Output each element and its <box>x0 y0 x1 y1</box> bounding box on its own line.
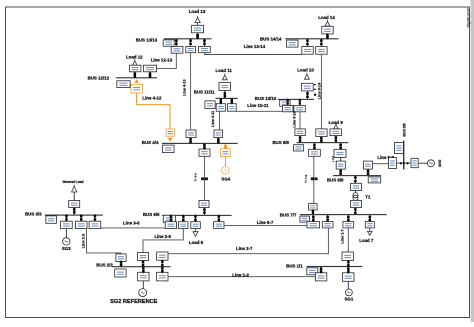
label Line 6-7 <box>257 220 274 225</box>
svg-text:Load 7: Load 7 <box>359 238 374 243</box>
wire Line 2-7 <box>168 228 328 254</box>
cubicle Line 2-6 at BUS 2/2 <box>138 253 149 261</box>
load Load 14 symbol <box>325 20 330 26</box>
bus BUS 5/5 (vertical) <box>403 141 404 170</box>
junction Load 14 / BUS 14/14 <box>326 33 329 39</box>
label BUS 6/6 <box>143 212 160 217</box>
label BUS 10/10 <box>255 96 277 101</box>
wire Load 10 to BUS 10/10 <box>307 91 309 99</box>
junction BUS 13/13 / Line 13-14 <box>203 38 206 46</box>
result box BUS 10/10 <box>280 100 290 106</box>
cubicle Line 13-14 at BUS 14/14 <box>302 47 313 55</box>
svg-text:DIgSILENT: DIgSILENT <box>467 7 471 27</box>
load Load 6 label <box>189 240 204 245</box>
label SG5 (rotated) <box>438 160 442 167</box>
cubicle Line 5-8 at BUS 5/5 <box>389 158 397 169</box>
wire General Load to BUS 3/3 <box>73 192 75 214</box>
svg-text:BUS 1/1: BUS 1/1 <box>286 263 303 268</box>
junction BUS 7/7 / Line 2-7 <box>326 215 329 222</box>
junction BUS 4/4 / Line 4-13 <box>189 137 192 144</box>
load Load 14 result box <box>322 26 333 34</box>
label BUS 5/5 (rotated) <box>402 123 406 136</box>
svg-text:Line 2-6: Line 2-6 <box>154 234 171 239</box>
svg-text:BUS 8/8: BUS 8/8 <box>327 177 344 182</box>
cubicle Line 2-3 at BUS 2/2 <box>116 254 126 262</box>
junction BUS 9/9 / Line 8-9 <box>339 143 342 150</box>
cubicle Line 1-2 at BUS 2/2 <box>157 272 168 281</box>
result box BUS 7/7 <box>300 216 310 222</box>
junction BUS 7/7 / Line 6-7 <box>312 215 315 222</box>
junction Line 5-8 / BUS 5/5 <box>400 162 409 164</box>
cubicle branch 4-6 at BUS 4/4 <box>199 149 210 156</box>
junction T1 / BUS 7/7 <box>354 207 357 215</box>
cubicle Line 1-7 at BUS 7/7 <box>343 222 354 228</box>
cubicle Line 10-11 at BUS 11/11 <box>228 104 237 112</box>
wire SG2 <box>142 281 144 289</box>
bus BUS 12/12 <box>116 77 157 78</box>
cubicle Line 1-7 at BUS 1/1 <box>342 252 353 261</box>
svg-text:Line 6-7: Line 6-7 <box>257 220 274 225</box>
result box BUS 2/2 <box>115 269 126 277</box>
wire branch 4-6 <box>204 156 206 200</box>
label Line 2-6 <box>154 234 171 239</box>
svg-text:T1: T1 <box>365 194 371 199</box>
cubicle SG3 at BUS 3/3 <box>61 221 73 228</box>
junction BUS 7/7 / Load 7 <box>369 215 372 222</box>
load Load 6 symbol <box>193 229 198 237</box>
junction BUS 2/2 / Line 1-2 <box>161 266 164 273</box>
label Line 4-13 (rotated) <box>182 79 186 95</box>
svg-text:Load 11: Load 11 <box>216 68 233 73</box>
junction BUS 8/8 / T1 <box>354 175 357 183</box>
cubicle Line 13-14 at BUS 13/13 <box>199 46 211 52</box>
switch arrow Line 4-12 at BUS 12/12 (orange) <box>134 79 138 82</box>
svg-text:L 8-9: L 8-9 <box>331 155 335 162</box>
junction BUS 6/6 / Line 3-6 <box>170 214 173 222</box>
junction BUS 11/11 / Line 4-11 <box>220 98 222 105</box>
cubicle SG5 at BUS 5/5 <box>411 158 418 167</box>
label Line 8-9 (rotated) <box>331 155 335 162</box>
wire Line 12-13 <box>157 53 177 68</box>
load General Load label <box>62 180 83 184</box>
result box BUS 11/11 <box>205 101 215 109</box>
load Load 11 symbol <box>222 74 227 80</box>
label Line 1-7 (rotated) <box>341 229 345 243</box>
label Line 5-8 <box>377 155 394 160</box>
bus BUS 1/1 <box>307 266 363 267</box>
junction branch 4-6 / BUS 6/6 <box>203 207 206 215</box>
load Load 11 label <box>216 68 233 73</box>
wire SG5 <box>418 162 427 164</box>
cubicle Line 2-3 at BUS 3/3 <box>75 221 87 228</box>
load Load 12 label <box>126 55 143 60</box>
result box BUS 14/14 <box>287 40 298 47</box>
junction Line 2-3 / BUS 2/2 <box>120 260 123 267</box>
load Load 12 result box <box>130 65 141 72</box>
junction BUS 7/7 / Line 1-7 <box>347 215 350 222</box>
svg-text:Tr 4-6: Tr 4-6 <box>193 173 197 182</box>
cubicle Line 9-14 at BUS 9/9 <box>316 129 327 137</box>
generator SG1 <box>346 289 353 296</box>
cubicle branch 7-9 at BUS 7/7 <box>309 204 318 210</box>
junction BUS 1/1 / Line 1-2 <box>320 267 323 274</box>
cubicle Line 4-11 at BUS 4/4 <box>214 130 223 138</box>
label SG1 <box>345 296 354 301</box>
bus BUS 14/14 <box>285 38 338 39</box>
svg-text:BUS 7/7: BUS 7/7 <box>280 212 297 217</box>
cubicle Line 2-6 at BUS 6/6 <box>179 222 189 229</box>
svg-text:General Load: General Load <box>62 180 83 184</box>
wire Line 10-11 <box>236 110 282 112</box>
label BUS 9/9 <box>272 140 289 145</box>
wire SG3 <box>65 229 67 238</box>
DIgSILENT logo text <box>467 7 471 27</box>
load General Load symbol <box>72 185 77 192</box>
load Load 13 result box <box>192 25 204 33</box>
label SG3 <box>62 246 71 251</box>
transformer T1 <box>353 190 358 200</box>
cubicle Line 2-7 at BUS 7/7 <box>322 222 333 228</box>
wire Load 9 to BUS 9/9 <box>335 136 337 143</box>
label branch 4-6 (rotated) <box>193 173 197 182</box>
label BUS 7/7 <box>280 212 297 217</box>
cubicle Line 1-2 at BUS 1/1 <box>315 273 326 281</box>
switch arrow SG4 at BUS 4/4 (orange) <box>224 145 228 150</box>
result box BUS 1/1 <box>307 268 318 275</box>
label Line 4-11 (rotated) <box>211 111 215 127</box>
cubicle Line 4-12 at BUS 12/12 (orange) <box>131 84 143 93</box>
wire Line 4-11 <box>219 111 221 130</box>
label BUS 13/13 <box>136 37 158 42</box>
load Load 10 result box <box>302 83 314 91</box>
junction BUS 3/3 / Line 2-3 <box>80 214 83 222</box>
bus BUS 2/2 <box>112 266 170 267</box>
cubicle Line 8-9 at BUS 9/9 <box>334 149 346 157</box>
wire Load 14 to BUS 14/14 <box>327 34 329 38</box>
junction BUS 13/13 / Line 12-13 <box>175 38 178 46</box>
label Line 1-2 <box>232 272 249 277</box>
label Line 2-3 (rotated) <box>81 234 85 248</box>
svg-text:Line 1-2: Line 1-2 <box>232 272 249 277</box>
cubicle Line 12-13 at BUS 13/13 <box>171 46 183 53</box>
cubicle Load 6 at BUS 6/6 <box>191 222 201 229</box>
junction Load 11 / BUS 11/11 <box>224 91 227 98</box>
result box BUS 5/5 <box>395 143 404 154</box>
cubicle Line 9-10 at BUS 9/9 <box>295 129 305 136</box>
wire Line 3-6 <box>101 227 166 229</box>
label SG2 REFERENCE <box>110 299 158 305</box>
load Load 9 label <box>329 120 344 125</box>
svg-text:BUS 3/3: BUS 3/3 <box>25 211 42 216</box>
wire Line 5-8 <box>373 163 389 165</box>
junction BUS 14/14 / Line 9-14 <box>320 38 323 46</box>
label Line 12-13 <box>151 58 173 63</box>
cubicle SG1 at BUS 1/1 <box>343 273 355 282</box>
svg-text:Load 10: Load 10 <box>297 68 314 73</box>
wire Line 9-14 stub to BUS 9/9 <box>320 137 322 143</box>
wire Line 8-9 <box>340 157 342 161</box>
wire Line 4-13 <box>190 53 192 130</box>
label Line 10-11 <box>247 103 269 108</box>
junction BUS 6/6 / Load 6 <box>194 214 197 222</box>
label Line 3-6 <box>123 220 140 225</box>
wire Line 9-10 <box>299 112 301 129</box>
cubicle Line 5-8 at BUS 8/8 <box>363 161 372 169</box>
load Load 10 box side marks <box>314 84 316 96</box>
junction BUS 9/9 / Line 9-10 <box>299 135 302 142</box>
junction BUS 6/6 / Line 2-6 <box>182 214 185 222</box>
cubicle Line 3-6 at BUS 6/6 <box>165 222 176 229</box>
svg-text:Line 10-11: Line 10-11 <box>247 103 269 108</box>
wire Load 12 to BUS 12/12 <box>134 72 136 78</box>
svg-text:BUS 10/10: BUS 10/10 <box>255 96 277 101</box>
junction BUS 9/9 / Line 9-14 <box>320 136 323 143</box>
svg-text:Line 4-11: Line 4-11 <box>211 111 215 127</box>
load Load 14 label <box>318 15 335 20</box>
load Load 13 symbol <box>195 16 200 23</box>
svg-text:Tr 7-9: Tr 7-9 <box>304 174 308 183</box>
junction BUS 10/10 / Line 9-10 <box>299 98 301 105</box>
label Line 4-12 <box>142 96 162 101</box>
junction General Load / BUS 3/3 <box>73 207 76 214</box>
junction Load 9 / BUS 9/9 <box>335 135 338 142</box>
branch 4-6 mid symbol <box>201 177 208 180</box>
junction BUS 6/6 / Line 6-7 <box>218 214 221 222</box>
junction BUS 1/1 / SG1 <box>347 267 350 274</box>
cubicle Line 4-13 at BUS 4/4 <box>186 130 196 138</box>
svg-text:BUS 11/11: BUS 11/11 <box>194 90 216 95</box>
load Load 9 result box <box>330 129 341 136</box>
bus BUS 11/11 <box>216 98 238 99</box>
bus BUS 8/8 <box>333 175 381 176</box>
wire SG1 <box>347 281 349 289</box>
junction BUS 3/3 / SG3 <box>65 214 68 222</box>
cubicle T1 at BUS 8/8 <box>351 183 362 190</box>
bus BUS 9/9 <box>297 142 349 143</box>
wire Line 5-8 to bus <box>396 162 411 164</box>
wire Line 1-2 <box>168 276 315 278</box>
svg-text:SG2 REFERENCE: SG2 REFERENCE <box>110 299 158 305</box>
wire Line 6-7 <box>224 225 307 227</box>
label BUS 1/1 <box>286 263 303 268</box>
junction Load 13 / BUS 13/13 <box>196 33 199 40</box>
junction BUS 10/10 / Line 10-11 <box>287 98 289 105</box>
cubicle Line 7-9 at BUS 9/9 <box>309 149 321 156</box>
wire Line 9-10 stub to BUS 9/9 <box>299 136 301 143</box>
wire T1 to BUS 7/7 <box>355 208 357 215</box>
svg-text:BUS 6/6: BUS 6/6 <box>143 212 160 217</box>
wire Line 4-12 (orange) <box>137 93 170 129</box>
cubicle Line 4-11 at BUS 11/11 <box>216 104 225 112</box>
label BUS 8/8 <box>327 177 344 182</box>
cubicle Line 12-13 at BUS 12/12 <box>143 65 156 72</box>
load Load 9 symbol <box>334 123 339 129</box>
generator SG4 (orange) <box>221 167 229 175</box>
generator SG5 <box>427 160 434 167</box>
junction BUS 11/11 / Line 10-11 <box>231 98 233 105</box>
wire SG4 (orange) <box>225 156 227 166</box>
wire Load 13 to BUS 13/13 <box>197 23 199 39</box>
junction BUS 8/8 / Line 8-9 <box>339 169 342 176</box>
cubicle SG2 at BUS 2/2 <box>138 272 149 281</box>
bus BUS 10/10 <box>278 99 314 100</box>
junction BUS 3/3 / Line 3-6 <box>94 214 97 222</box>
junction Load 12 / BUS 12/12 <box>134 72 137 79</box>
svg-text:BUS 9/9: BUS 9/9 <box>272 140 289 145</box>
load Load 7 label <box>359 238 374 243</box>
cubicle Line 3-6 at BUS 3/3 <box>89 221 101 228</box>
svg-text:Line 9-14: Line 9-14 <box>318 82 322 99</box>
cubicle SG4 at BUS 4/4 (orange) <box>221 149 231 157</box>
label BUS 12/12 <box>88 76 110 81</box>
cubicle Line 8-9 at BUS 8/8 <box>336 161 345 169</box>
load Load 12 symbol <box>132 59 137 65</box>
bus BUS 4/4 <box>162 143 238 144</box>
cubicle Line 9-14 at BUS 14/14 <box>316 47 327 55</box>
label Line 13-14 <box>244 44 266 49</box>
svg-text:Line 2-3: Line 2-3 <box>81 234 85 248</box>
label T1 <box>365 194 371 199</box>
junction BUS 9/9 / Line 7-9 <box>313 143 316 150</box>
label BUS 11/11 <box>194 90 216 95</box>
cubicle Load 7 at BUS 7/7 <box>365 222 374 228</box>
load Load 10 symbol <box>304 73 309 79</box>
load General Load result box <box>69 201 80 208</box>
result box BUS 4/4 <box>163 145 175 153</box>
junction Line 2-7 / BUS 2/2 <box>161 260 164 268</box>
svg-text:Load 14: Load 14 <box>318 15 335 20</box>
svg-text:Line 4-13: Line 4-13 <box>182 79 186 95</box>
wire branch 7-9 stub to BUS 7/7 <box>312 210 314 215</box>
label BUS 2/2 <box>96 262 113 267</box>
result box BUS 9/9 <box>294 145 304 151</box>
svg-text:SG3: SG3 <box>62 246 71 251</box>
svg-text:Load 12: Load 12 <box>126 55 143 60</box>
wire Line 2-3 <box>87 229 121 254</box>
svg-text:Line 9-10: Line 9-10 <box>292 111 296 127</box>
junction Line 1-7 / BUS 1/1 <box>347 260 350 268</box>
svg-text:SG1: SG1 <box>345 296 354 301</box>
junction Line 2-6 / BUS 2/2 <box>142 260 145 268</box>
cubicle Line 6-7 at BUS 7/7 <box>307 222 320 228</box>
wire Line 13-14 <box>205 53 302 55</box>
label BUS 3/3 <box>25 211 42 216</box>
junction BUS 14/14 / Line 13-14 <box>306 38 309 46</box>
bus BUS 6/6 <box>162 215 231 216</box>
label Line 9-14 (rotated) <box>318 82 322 99</box>
wire Line 9-14 <box>320 54 322 129</box>
svg-text:BUS 2/2: BUS 2/2 <box>96 262 113 267</box>
label branch 7-9 (rotated) <box>304 174 308 183</box>
bus BUS 3/3 <box>45 215 103 216</box>
svg-text:BUS 5/5: BUS 5/5 <box>402 123 406 136</box>
svg-text:BUS 14/14: BUS 14/14 <box>260 37 282 42</box>
generator SG2 <box>139 289 147 297</box>
result box BUS 12/12 <box>117 81 130 88</box>
cubicle Line 6-7 at BUS 6/6 <box>214 222 224 229</box>
junction BUS 8/8 / Line 5-8 <box>367 169 370 176</box>
svg-text:Load 13: Load 13 <box>189 9 206 14</box>
result box BUS 3/3 <box>46 216 57 223</box>
cubicle Line 4-12 at BUS 4/4 (orange) <box>166 129 175 136</box>
label Line 9-10 (rotated) <box>292 111 296 127</box>
wire Load 11 to BUS 11/11 <box>224 91 226 99</box>
svg-text:BUS 4/4: BUS 4/4 <box>142 140 159 145</box>
svg-text:Line 3-6: Line 3-6 <box>123 220 140 225</box>
cubicle T1 at BUS 7/7 <box>351 200 362 207</box>
wire branch 7-9 <box>313 156 315 203</box>
switch arrow Line 4-12 at BUS 4/4 (orange) <box>168 138 173 142</box>
svg-text:Line 4-12: Line 4-12 <box>142 96 162 101</box>
label SG4 <box>221 176 230 181</box>
label BUS 14/14 <box>260 37 282 42</box>
wire Line 1-7 <box>347 228 349 252</box>
svg-text:Line 1-7: Line 1-7 <box>341 229 345 243</box>
right page edge strip <box>471 0 474 322</box>
cubicle Line 9-10 at BUS 10/10 <box>294 106 305 112</box>
load Load 10 label <box>297 68 314 73</box>
label Line 2-7 <box>236 246 253 251</box>
bus BUS 13/13 <box>164 38 212 39</box>
junction BUS 12/12 / Line 12-13 <box>149 72 152 79</box>
load Load 13 label <box>189 9 206 14</box>
svg-text:Line 12-13: Line 12-13 <box>151 58 173 63</box>
result box BUS 6/6 <box>163 215 175 222</box>
junction BUS 2/2 / SG2 <box>142 266 145 273</box>
cubicle Line 10-11 at BUS 10/10 <box>283 106 294 112</box>
junction BUS 13/13 / Line 4-13 <box>189 38 192 46</box>
cubicle branch 4-6 at BUS 6/6 <box>199 200 209 207</box>
bus BUS 7/7 <box>300 214 387 215</box>
branch 7-9 mid symbol <box>311 177 318 180</box>
junction branch 7-9 / BUS 7/7 <box>312 209 314 216</box>
cubicle Line 2-7 at BUS 2/2 <box>157 252 168 260</box>
svg-text:Line 2-7: Line 2-7 <box>236 246 253 251</box>
svg-text:Line 13-14: Line 13-14 <box>244 44 266 49</box>
load Load 11 result box <box>219 83 231 91</box>
generator SG3 <box>63 238 70 245</box>
svg-text:SG5: SG5 <box>438 160 442 167</box>
junction BUS 4/4 / branch 4-6 <box>203 143 206 150</box>
result box BUS 13/13 <box>163 40 174 46</box>
svg-text:BUS 13/13: BUS 13/13 <box>136 37 158 42</box>
junction Load 10 / BUS 10/10 <box>306 91 309 99</box>
load Load 7 symbol <box>368 228 373 236</box>
label BUS 4/4 <box>142 140 159 145</box>
cubicle Line 4-13 at BUS 13/13 <box>186 46 196 52</box>
wire Line 2-6 <box>143 229 183 253</box>
result box BUS 8/8 <box>368 177 381 183</box>
svg-text:Load 6: Load 6 <box>189 240 204 245</box>
junction BUS 4/4 / Line 4-11 <box>217 137 220 144</box>
svg-text:SG4: SG4 <box>221 176 230 181</box>
svg-text:BUS 12/12: BUS 12/12 <box>88 76 110 81</box>
